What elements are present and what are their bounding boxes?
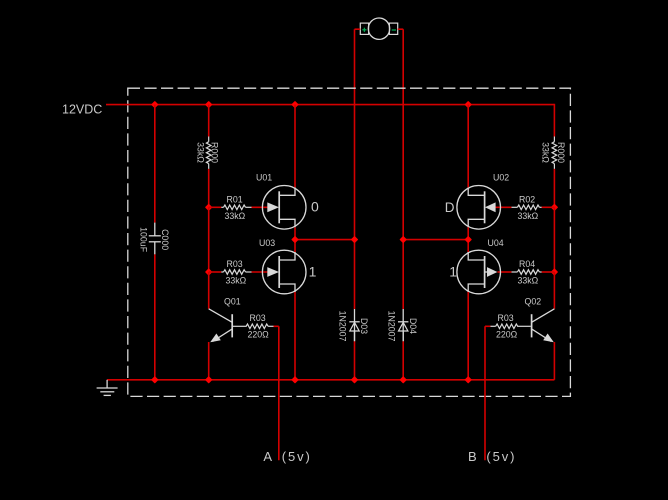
label Q01 — [224, 296, 241, 306]
junction R03 node — [206, 269, 212, 275]
wire R01 to U01 gate — [252, 206, 268, 208]
wire U03 source to ground rail — [294, 292, 296, 380]
wire R02 node stub — [542, 206, 555, 208]
wire Q01 emitter to ground rail — [208, 342, 210, 380]
label C000 — [160, 229, 170, 250]
motor M1 terminal - (right) — [389, 23, 397, 34]
label 220Ω Q02 — [496, 329, 518, 339]
svg-text:U02: U02 — [493, 173, 509, 183]
svg-text:33kΩ: 33kΩ — [196, 142, 206, 163]
svg-text:U01: U01 — [256, 173, 272, 183]
label 1 at U04 — [449, 263, 457, 279]
mosfet U04 drain lead — [468, 252, 484, 260]
wire rail to R000 left — [208, 105, 210, 137]
mosfet U04 gate lead — [485, 271, 488, 273]
capacitor C000 — [149, 223, 161, 255]
svg-text:33kΩ: 33kΩ — [518, 211, 539, 221]
svg-text:U04: U04 — [488, 238, 504, 248]
junction node right at motor leg — [400, 237, 406, 243]
wire rail to U01 drain — [294, 105, 296, 188]
label A — [263, 449, 272, 464]
label B — [468, 449, 477, 464]
junction ground rail at D03 — [352, 377, 358, 383]
svg-text:33kΩ: 33kΩ — [226, 276, 247, 286]
label 0 at U01 — [311, 198, 319, 214]
transistor Q01 collector — [209, 309, 233, 323]
transistor Q02 collector — [532, 309, 555, 323]
wire input A — [278, 326, 280, 460]
svg-text:(5v): (5v) — [486, 449, 516, 464]
resistor R02 — [511, 205, 541, 210]
svg-text:1N2007: 1N2007 — [337, 311, 347, 342]
label Q02 — [525, 296, 542, 306]
label U04 — [488, 238, 504, 248]
svg-text:33kΩ: 33kΩ — [541, 142, 551, 163]
wire R03 node to Q01 collector — [208, 272, 210, 309]
resistor R03 gate — [221, 270, 251, 275]
svg-text:R000: R000 — [210, 142, 220, 163]
svg-text:B: B — [468, 449, 477, 464]
svg-text:U03: U03 — [259, 238, 275, 248]
wire motor right leg to U04 node — [403, 239, 468, 241]
mosfet U01 gate arrow — [267, 202, 279, 212]
label 33kΩ R03 — [226, 276, 247, 286]
junction node left at U03 — [292, 237, 298, 243]
wire Q02 emitter to ground rail corner — [553, 342, 555, 380]
label R03 base Q01 — [250, 313, 266, 323]
svg-text:Q02: Q02 — [525, 296, 542, 306]
label D03 — [359, 318, 369, 334]
wire U02 source to node — [467, 227, 469, 239]
resistor R000 left — [206, 137, 211, 169]
junction ground rail at U03 source — [292, 377, 298, 383]
diode D04 — [398, 309, 408, 341]
svg-text:R03: R03 — [227, 259, 243, 269]
label 33kΩ R01 — [225, 211, 246, 221]
wire R01 node stub — [209, 206, 222, 208]
svg-text:0: 0 — [311, 198, 319, 214]
resistor R04 — [511, 270, 541, 275]
svg-text:A: A — [263, 449, 272, 464]
wire R000 right to R02 node — [553, 169, 555, 207]
wire R000 left to R01 node — [208, 169, 210, 207]
svg-text:220Ω: 220Ω — [496, 329, 518, 339]
label U03 — [259, 238, 275, 248]
mosfet U02 drain lead — [468, 187, 484, 195]
junction node left at motor leg — [352, 237, 358, 243]
wire rail to C000 — [154, 105, 156, 223]
svg-text:R000: R000 — [556, 142, 566, 163]
wire U01 source to node — [294, 227, 296, 239]
resistor R000 right — [552, 137, 557, 169]
mosfet U02 source lead — [468, 219, 484, 227]
svg-text:12VDC: 12VDC — [62, 103, 102, 117]
resistor R03 base Q02 — [490, 324, 531, 329]
wire motor right leg down to node — [402, 29, 404, 309]
label 33kΩ R04 — [518, 276, 539, 286]
mosfet U01 gate bar — [278, 191, 280, 223]
svg-text:(5v): (5v) — [282, 449, 312, 464]
mosfet U03 source lead — [279, 284, 295, 292]
svg-text:R01: R01 — [227, 195, 243, 205]
label U02 — [493, 173, 509, 183]
junction node right at U04 — [465, 237, 471, 243]
svg-text:33kΩ: 33kΩ — [518, 276, 539, 286]
wire ground rail — [107, 379, 554, 381]
svg-text:D04: D04 — [408, 318, 418, 334]
junction top rail at R000 left — [206, 102, 212, 108]
motor M1 body — [368, 18, 389, 39]
label 1N2007 D04 — [387, 311, 397, 342]
svg-text:R04: R04 — [519, 259, 535, 269]
wire R03 to input A corner — [274, 325, 279, 327]
wire R04 to U04 gate — [497, 271, 511, 273]
wire R03 node stub — [209, 271, 222, 273]
label 33kΩ R000 left — [196, 142, 206, 163]
wire motor + to left leg — [355, 28, 361, 30]
mosfet U04 source lead — [468, 284, 484, 292]
mosfet U01 body — [262, 186, 306, 230]
dashed enclosure box — [128, 88, 571, 396]
transistor Q01 base bar — [231, 314, 233, 337]
wire input B — [484, 326, 486, 460]
diode D03 — [349, 309, 359, 341]
ground — [97, 380, 118, 396]
mosfet U02 body — [457, 186, 501, 230]
mosfet U03 gate arrow — [267, 267, 279, 277]
svg-text:100uF: 100uF — [139, 227, 149, 253]
mosfet U03 body — [262, 250, 306, 294]
mosfet U02 gate bar — [484, 191, 486, 223]
svg-text:R03: R03 — [250, 313, 266, 323]
wire node to U04 drain — [467, 240, 469, 252]
svg-text:Q01: Q01 — [224, 296, 241, 306]
junction top rail at C000 — [152, 102, 158, 108]
label 100uF — [139, 227, 149, 253]
junction top rail at U02 drain — [465, 102, 471, 108]
mosfet U03 gate bar — [278, 256, 280, 288]
mosfet U04 gate arrow — [487, 267, 497, 277]
label 220Ω Q01 — [248, 329, 270, 339]
mosfet U04 body — [457, 250, 501, 294]
wire R04 node to Q02 collector — [553, 272, 555, 309]
wire 12VDC top rail — [106, 104, 554, 106]
wire motor left leg down to node — [354, 29, 356, 309]
junction R02 node — [552, 204, 558, 210]
svg-text:33kΩ: 33kΩ — [225, 211, 246, 221]
label U01 — [256, 173, 272, 183]
label R000 right — [556, 142, 566, 163]
label 33kΩ R02 — [518, 211, 539, 221]
wire D03 anode to ground rail — [354, 341, 356, 380]
wire R04 node stub — [542, 271, 555, 273]
motor M1 terminal + (left) — [360, 23, 368, 34]
junction R04 node — [552, 269, 558, 275]
svg-text:D03: D03 — [359, 318, 369, 334]
label 12VDC — [62, 103, 102, 117]
resistor R01 — [221, 205, 251, 210]
junction ground rail at D04 — [400, 377, 406, 383]
label (5v) B — [486, 449, 516, 464]
junction ground rail at U04 source — [465, 377, 471, 383]
transistor Q01 emitter — [210, 329, 232, 342]
mosfet U04 gate bar — [484, 256, 486, 288]
label R03 gate — [227, 259, 243, 269]
label D04 — [408, 318, 418, 334]
svg-text:1N2007: 1N2007 — [387, 311, 397, 342]
svg-text:1: 1 — [309, 263, 317, 279]
junction top rail at U01 drain — [292, 102, 298, 108]
wire rail to U02 drain — [467, 105, 469, 188]
junction ground rail at C000 — [152, 377, 158, 383]
transistor Q02 emitter — [532, 329, 554, 342]
wire node to U03 drain — [294, 240, 296, 252]
svg-text:C000: C000 — [160, 229, 170, 250]
wire R02 to U02 gate — [495, 206, 511, 208]
wire motor - to right leg — [398, 28, 404, 30]
mosfet U01 drain lead — [279, 187, 295, 195]
label 33kΩ R000 right — [541, 142, 551, 163]
wire U03 node to motor left leg — [295, 239, 355, 241]
wire U04 source to ground rail — [467, 292, 469, 380]
wire R01 node to R03 node — [208, 207, 210, 272]
transistor Q02 base bar — [531, 314, 533, 337]
resistor R03 base Q01 — [233, 324, 274, 329]
wire C000 to ground rail — [154, 254, 156, 379]
wire R02 node to R04 node — [553, 207, 555, 272]
wire rail corner to R000 right — [553, 104, 555, 137]
label R03 base Q02 — [498, 313, 514, 323]
svg-text:R02: R02 — [519, 195, 535, 205]
label 1N2007 D03 — [337, 311, 347, 342]
label R000 left — [210, 142, 220, 163]
label 1 at U03 — [309, 263, 317, 279]
wire R03 to input B corner — [485, 325, 490, 327]
mosfet U01 source lead — [279, 219, 295, 227]
wire R03 to U03 gate — [252, 271, 268, 273]
mosfet U02 gate arrow — [485, 202, 496, 212]
junction ground rail at Q01 emitter — [206, 377, 212, 383]
label R04 — [519, 259, 535, 269]
label R02 — [519, 195, 535, 205]
wire D04 anode to ground rail — [402, 341, 404, 380]
label R01 — [227, 195, 243, 205]
svg-text:1: 1 — [449, 263, 457, 279]
mosfet U03 drain lead — [279, 252, 295, 260]
junction R01 node — [206, 204, 212, 210]
svg-text:220Ω: 220Ω — [248, 329, 270, 339]
label (5v) A — [282, 449, 312, 464]
svg-text:R03: R03 — [498, 313, 514, 323]
svg-text:D: D — [445, 200, 455, 215]
label D at U02 — [445, 200, 455, 215]
